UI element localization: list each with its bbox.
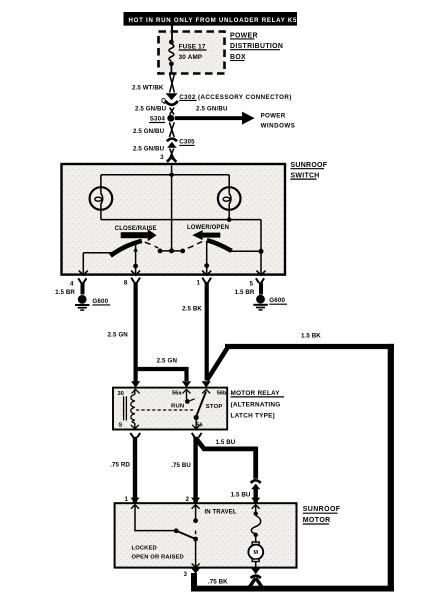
wire: right lamp bottom stem [228,210,230,220]
junction: lamp feed node [169,173,174,178]
wire: center contact link [160,250,183,252]
svg-text:1.5 BU: 1.5 BU [216,439,236,446]
wire 1.5 BK: top horizontal run [225,344,394,349]
svg-text:.75 RD: .75 RD [110,461,130,468]
wire .75 BK / 1.5 BK: bottom horizontal run [191,586,394,592]
svg-text:LOWER/OPEN: LOWER/OPEN [187,225,229,231]
mech link dashes left [145,242,158,248]
switch blade: lower/open [207,240,232,251]
contact: switch common center [169,248,174,253]
svg-text:5: 5 [250,280,254,287]
svg-text:1.5 BK: 1.5 BK [301,333,321,340]
svg-text:POWER: POWER [261,113,286,120]
switch blade: close/raise [111,241,142,256]
motor box interior [131,505,263,568]
svg-text:2.5 GN: 2.5 GN [157,357,178,364]
wire fusebox to C302 (crossed style) [170,74,175,93]
wire: right lamp top stem [228,175,230,188]
svg-text:56b: 56b [217,390,227,396]
wire: pin 4 vertical [82,253,84,276]
junction: right lamp return node [227,217,232,222]
link dash 56a to blade [190,399,195,401]
wire: left lamp top stem [100,175,102,188]
svg-text:LOCKED: LOCKED [132,546,157,552]
motor box exit notches [192,564,200,568]
svg-text:LATCH TYPE): LATCH TYPE) [231,413,276,420]
svg-text:8: 8 [124,280,128,287]
svg-text:OPEN OR RAISED: OPEN OR RAISED [132,555,184,561]
svg-text:2.5 GN/BU: 2.5 GN/BU [135,106,167,113]
relay coil core bars [124,389,211,430]
SUNROOF MOTOR box [115,503,297,567]
svg-text:1.5 BR: 1.5 BR [235,289,255,296]
svg-text:2.5 GN: 2.5 GN [108,331,129,338]
pin 5 terminal, wire 1.5 BR, ground G600 (right) [235,278,287,310]
wire: switch pin 3 center vertical [171,166,173,251]
pin 4 terminal, wire 1.5 BR, ground G600 (left) [55,278,110,310]
relay mechanical link dashes [136,409,194,411]
wire C305 to switch box [170,149,174,159]
svg-text:M: M [254,550,259,556]
wire C302 to S304 [170,108,174,115]
svg-text:MOTOR: MOTOR [303,517,331,524]
svg-text:1.5 BR: 1.5 BR [55,289,75,296]
wire: right blade contact horizontal [231,250,261,252]
motor feed: internal flex link [255,505,257,513]
motor M [252,542,259,545]
svg-text:2.5 GN/BU: 2.5 GN/BU [196,106,228,113]
contact: close/raise contact [158,249,163,254]
wire: left lamp bottom stem [100,210,102,220]
wire: pin 8 internal vertical [135,245,137,276]
relay pin entry/exit notches [131,389,210,428]
svg-text:MOTOR RELAY: MOTOR RELAY [231,390,281,397]
junction: pin 8 node [133,264,138,269]
svg-text:IN TRAVEL: IN TRAVEL [205,509,237,515]
label+arrow: LOWER/OPEN actuation [187,225,229,240]
svg-text:1.5 BU: 1.5 BU [231,492,251,499]
svg-text:RUN: RUN [171,404,184,410]
label+arrow: CLOSE/RAISE actuation [115,226,157,241]
svg-text:30: 30 [118,391,124,397]
motor bottom connector [249,568,263,588]
svg-text:2.5 GN/BU: 2.5 GN/BU [133,146,165,153]
wire S304 to C305 [169,122,174,137]
relay pin labels 30 S 56a 56b 56 and RUN/STOP [118,390,228,428]
motor switch: pin 2 wire, dots and dash [195,505,197,521]
wire: lamp return bottom horizontal [101,219,261,221]
pin notches bottom of switch box [79,271,266,276]
relay blade 56b (STOP) [196,392,206,417]
svg-text:S: S [119,422,123,428]
svg-text:1: 1 [197,280,201,287]
wire 1.5 BK: diagonal branch off pin 1 [207,348,228,381]
svg-text:.75 BK: .75 BK [208,579,228,586]
svg-text:3: 3 [160,154,164,161]
arrow to POWER WINDOWS [175,106,296,130]
svg-text:C302 (ACCESSORY CONNECTOR): C302 (ACCESSORY CONNECTOR) [179,94,292,101]
MOTOR RELAY box [113,388,227,430]
motor switch: pin 1 wire and contact [135,505,176,531]
svg-text:FUSE 17: FUSE 17 [179,43,206,50]
svg-text:2.5 BK: 2.5 BK [182,305,202,312]
svg-text:SUNROOF: SUNROOF [291,162,328,169]
wire from relay 56 splitting to .75 BU and 1.5 BU [171,433,256,504]
wire: pin 1 internal vertical [206,241,208,276]
wire: pin 4 horizontal to left blade pivot [83,252,111,254]
svg-text:2.5 WT/BK: 2.5 WT/BK [132,84,164,91]
relay contact 56a (RUN) [186,389,188,399]
svg-text:STOP: STOP [206,404,223,410]
svg-text:HOT IN RUN ONLY FROM UNLOADER: HOT IN RUN ONLY FROM UNLOADER RELAY K5 [129,17,298,24]
junction: pin 5 branch node [259,249,264,254]
label POWER DISTRIBUTION BOX [230,32,283,61]
wire banner to fuse box [171,26,173,32]
wire 2.5 GN from pin 8 [108,278,140,382]
connector C305 [167,139,177,148]
contact: lower/open contact [180,249,185,254]
SUNROOF SWITCH box [62,164,286,275]
svg-text:30 AMP: 30 AMP [179,54,203,61]
svg-text:WINDOWS: WINDOWS [261,123,296,130]
contact arrow on pin 8 line [133,247,138,251]
svg-text:2.5 GN/BU: 2.5 GN/BU [133,128,165,135]
inline connector on 1.5 BU [231,480,261,503]
svg-text:SWITCH: SWITCH [291,172,320,179]
connector C302 [165,93,177,105]
lamp: left illumination bulb [90,187,113,210]
svg-text:(ALTERNATING: (ALTERNATING [231,402,281,409]
arrowhead into relay pin 30 [131,381,140,387]
svg-text:.75 BU: .75 BU [171,462,191,469]
entry arrow into switch box [167,157,176,162]
wire: lamp feed top horizontal [101,174,229,176]
wire 2.5 BK from pin 1 [182,278,211,381]
arrowheads into motor box [130,498,139,504]
lamp: right illumination bulb [218,187,241,210]
svg-text:G600: G600 [92,298,108,305]
mech link dashes right [188,242,202,249]
wire: right branch down to pin 5 [260,220,262,276]
2.5 GN branch to 56a [136,357,187,381]
svg-text:C305: C305 [179,138,195,145]
wire 1.5 BK: right vertical run [388,344,394,592]
arrowhead into relay pin 56b [202,381,211,387]
svg-text:SUNROOF: SUNROOF [303,506,341,513]
arrowhead into relay pin 56a [182,381,191,387]
svg-text:G600: G600 [269,297,285,304]
fuse F17 [169,32,207,73]
svg-text:56a: 56a [172,390,182,396]
svg-text:4: 4 [70,280,74,287]
junction: pin 1 node [204,263,209,268]
banner HOT IN RUN [124,12,298,26]
svg-text:S304: S304 [150,115,166,122]
wire .75 RD from relay S [110,433,140,504]
relay coil K (run winding) [131,395,135,424]
power distribution box (dashed) [159,32,225,74]
